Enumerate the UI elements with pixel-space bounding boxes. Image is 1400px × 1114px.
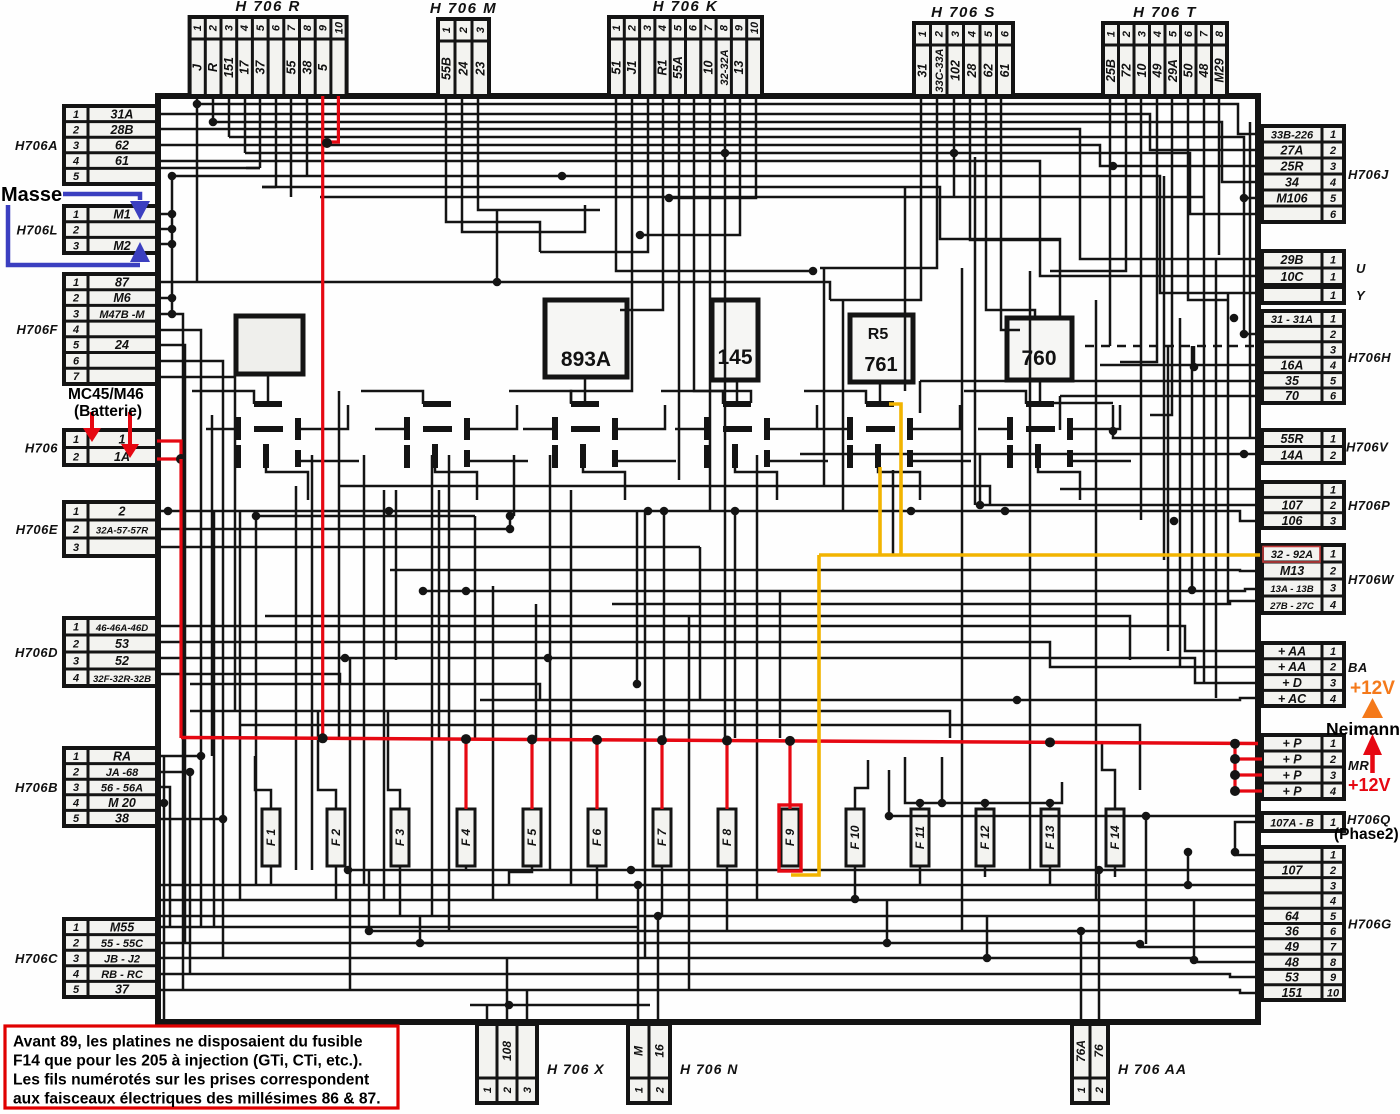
wire net A5/Y	[172, 176, 1262, 293]
svg-text:1: 1	[1330, 646, 1336, 658]
wire relay feed	[964, 391, 1026, 404]
svg-text:2: 2	[933, 31, 945, 38]
relay1 right contact	[295, 418, 301, 440]
svg-text:9: 9	[1330, 972, 1337, 984]
junction	[544, 654, 553, 663]
fuse F13	[1041, 809, 1059, 866]
wire net RB-RC/53	[157, 974, 1262, 977]
wire net R/34	[213, 122, 1262, 182]
svg-text:52: 52	[115, 654, 129, 668]
wire from H706S pin1	[830, 96, 921, 300]
svg-text:76A: 76A	[1074, 1040, 1088, 1062]
svg-text:2: 2	[1329, 500, 1336, 512]
svg-text:F14 que pour les 205 à injecti: F14 que pour les 205 à injection (GTi, C…	[13, 1053, 363, 1070]
svg-text:Y: Y	[1356, 288, 1366, 303]
wire to H706X pin3	[526, 990, 529, 1024]
svg-text:H 706 R: H 706 R	[235, 0, 301, 15]
wire stub	[419, 916, 422, 943]
wire M6 stub	[157, 297, 172, 300]
fuse F14	[1106, 809, 1124, 866]
wire vertical	[734, 511, 737, 738]
svg-text:Les fils numérotés sur les pri: Les fils numérotés sur les prises corres…	[13, 1072, 369, 1089]
wire net 53/+AA	[157, 642, 1262, 667]
svg-text:2: 2	[118, 505, 126, 519]
wire mid 486	[340, 486, 990, 505]
junction	[633, 680, 642, 689]
wire from H706S pin3	[953, 96, 956, 198]
svg-text:1: 1	[1330, 129, 1336, 141]
wire vertical	[383, 490, 386, 900]
junction	[164, 507, 173, 516]
svg-text:46-46A-46D: 46-46A-46D	[95, 623, 148, 634]
wire from H706R pin	[275, 96, 278, 187]
svg-text:5: 5	[73, 340, 80, 352]
svg-text:1: 1	[73, 922, 79, 934]
svg-text:Masse: Masse	[1, 184, 62, 206]
wire F3 top	[388, 711, 400, 809]
connector H706A	[15, 106, 157, 184]
connector H706V	[1262, 430, 1389, 463]
svg-text:1: 1	[1076, 1087, 1088, 1093]
wire net 27B-27C	[612, 601, 1262, 604]
relay5 right contact lower	[907, 450, 913, 467]
relay3 right contact lower	[612, 450, 618, 467]
svg-text:(Phase2): (Phase2)	[1334, 826, 1399, 843]
svg-text:55B: 55B	[440, 57, 454, 80]
relay6 fixed contact	[1026, 401, 1054, 407]
svg-text:+ P: + P	[1282, 785, 1302, 799]
wire net 64	[160, 915, 1262, 918]
relay3 coil pin	[580, 444, 586, 468]
fuse F7	[653, 809, 671, 866]
svg-text:9: 9	[318, 24, 330, 31]
wire relay6 to 55R	[1048, 402, 1113, 405]
wire from H706T pin7	[1203, 96, 1206, 197]
svg-text:aux faisceaux électriques des: aux faisceaux électriques des millésimes…	[13, 1091, 381, 1108]
junction	[209, 118, 218, 127]
junction	[883, 939, 892, 948]
wire vertical	[688, 616, 691, 990]
svg-text:51: 51	[610, 61, 624, 75]
connector H706E	[16, 502, 157, 556]
junction	[851, 895, 860, 904]
relay contacts relay5	[850, 404, 910, 468]
svg-text:2: 2	[72, 937, 79, 949]
relay3 left contact	[552, 417, 558, 440]
svg-text:50: 50	[1181, 64, 1195, 78]
svg-text:3: 3	[475, 27, 487, 33]
relay contacts relay3	[555, 404, 615, 468]
junction	[1109, 162, 1118, 171]
connector H706B	[15, 748, 157, 826]
svg-text:9: 9	[734, 24, 746, 31]
svg-text:37: 37	[115, 983, 130, 997]
junction	[983, 954, 992, 963]
svg-text:2: 2	[1329, 329, 1336, 341]
wire relay left	[978, 428, 1010, 431]
svg-text:M106: M106	[1276, 192, 1308, 206]
wire F2 top	[318, 711, 336, 809]
svg-text:7: 7	[286, 24, 298, 31]
junction red bus	[461, 734, 471, 744]
wire vertical	[986, 916, 989, 958]
svg-text:4: 4	[72, 673, 79, 685]
svg-text:R: R	[206, 63, 220, 72]
svg-text:M13: M13	[1280, 564, 1304, 578]
connector H706	[25, 430, 157, 465]
svg-text:32F-32R-32B: 32F-32R-32B	[93, 674, 151, 685]
junction	[976, 501, 985, 510]
svg-text:1: 1	[441, 27, 453, 33]
wire F10 top	[855, 760, 868, 809]
caption box	[5, 1026, 398, 1108]
junction	[809, 267, 818, 276]
wire P1	[1060, 488, 1262, 491]
wire vertical	[431, 455, 434, 916]
wire 55R	[1113, 405, 1262, 438]
relay 145	[712, 300, 758, 380]
svg-text:38: 38	[115, 812, 129, 826]
wire RA	[157, 755, 201, 758]
wire relay right lower	[910, 460, 971, 463]
wire relay coil tail	[266, 468, 308, 500]
svg-text:5: 5	[255, 24, 267, 31]
svg-text:1: 1	[73, 434, 79, 446]
fuse F9	[781, 809, 799, 866]
svg-text:H706W: H706W	[1348, 572, 1395, 587]
junction red	[322, 138, 332, 148]
red wire to fuse	[530, 739, 533, 809]
relay contacts relay6	[1010, 404, 1070, 468]
wire M2 stub	[157, 243, 172, 246]
relay2 left contact lower	[404, 445, 410, 468]
red wire to fuse	[725, 741, 728, 809]
wire relay right	[615, 405, 665, 429]
svg-text:62: 62	[981, 64, 995, 78]
wire relay feed	[661, 391, 723, 404]
relay contacts relay2	[407, 404, 467, 468]
svg-text:JB - J2: JB - J2	[104, 954, 140, 966]
wire vertical	[961, 268, 964, 931]
svg-text:17: 17	[238, 60, 252, 75]
wire from H706K pin7	[709, 96, 712, 511]
wire vertical	[663, 511, 666, 738]
junction	[365, 927, 374, 936]
wire relay coil tail	[435, 468, 477, 500]
relay3 moving contact	[571, 426, 600, 432]
wire vertical	[1179, 318, 1182, 667]
wire vertical	[255, 516, 258, 885]
wire stub	[919, 381, 922, 413]
svg-text:3: 3	[1330, 880, 1336, 892]
relay4 left contact	[704, 417, 710, 440]
junction	[634, 881, 643, 890]
connector H706G	[1262, 847, 1392, 1000]
svg-text:5: 5	[1330, 193, 1337, 205]
relay6 moving contact	[1026, 426, 1055, 432]
svg-text:27B - 27C: 27B - 27C	[1269, 601, 1315, 612]
red wire H706 pin2	[157, 457, 181, 460]
junction	[385, 507, 394, 516]
wire vertical	[474, 516, 477, 738]
junction	[416, 939, 425, 948]
svg-text:28: 28	[965, 64, 979, 79]
svg-text:29B: 29B	[1280, 253, 1304, 267]
wire from H706K pin9	[640, 96, 740, 235]
wire from H706R pin	[196, 96, 199, 104]
svg-text:1: 1	[1330, 255, 1336, 267]
wire net 37/151	[157, 990, 1262, 993]
svg-text:62: 62	[115, 139, 129, 153]
relay6 right contact lower	[1067, 450, 1073, 467]
yellow wire relay5 top	[889, 404, 901, 555]
wire from H706K pin10	[669, 96, 756, 198]
wire vertical	[1249, 122, 1252, 438]
wire 32A-57-57R	[157, 528, 510, 531]
junction	[168, 240, 177, 249]
svg-text:107: 107	[1282, 863, 1304, 877]
wire from H706R pin	[244, 96, 247, 153]
svg-text:4: 4	[1329, 896, 1336, 908]
wire vertical	[779, 591, 782, 738]
svg-text:151: 151	[1282, 986, 1303, 1000]
svg-text:8: 8	[1214, 30, 1226, 37]
svg-text:H706Q: H706Q	[1347, 812, 1391, 827]
relay1 left contact	[235, 417, 241, 440]
svg-text:F 9: F 9	[783, 829, 797, 847]
junction red	[1230, 770, 1240, 780]
svg-text:3: 3	[73, 542, 79, 554]
svg-text:3: 3	[950, 31, 962, 37]
junction	[1136, 940, 1145, 949]
svg-text:F 11: F 11	[913, 826, 927, 849]
svg-text:M: M	[632, 1045, 646, 1056]
relay R5 761	[850, 315, 913, 382]
svg-text:3: 3	[73, 782, 79, 794]
fuse F10	[846, 809, 864, 866]
wire vertical	[570, 490, 573, 885]
relay box (unlabelled)	[236, 316, 303, 374]
svg-text:1: 1	[1330, 738, 1336, 750]
svg-text:1: 1	[1105, 31, 1117, 37]
wire vertical	[823, 268, 826, 486]
wire M55	[157, 926, 638, 929]
junction	[1184, 881, 1193, 890]
wire vertical	[756, 455, 759, 900]
wire F4 bottom	[465, 866, 468, 870]
fuse F8	[718, 809, 736, 866]
junction	[160, 799, 169, 808]
svg-text:H 706 T: H 706 T	[1133, 4, 1197, 21]
svg-text:1: 1	[1330, 290, 1336, 302]
wire masse bus	[171, 176, 174, 317]
svg-text:+ P: + P	[1282, 737, 1302, 751]
wire mid 725	[240, 725, 1140, 790]
svg-text:48: 48	[1284, 955, 1299, 969]
svg-text:2: 2	[72, 293, 79, 305]
wire F10 bottom	[854, 866, 857, 899]
junction red bus	[722, 736, 732, 746]
wire 107	[980, 504, 1262, 507]
fuse F6	[588, 809, 606, 866]
wire from H706K pin8	[724, 96, 727, 738]
wire dashed H3	[1085, 345, 1261, 348]
wire vertical	[363, 455, 366, 885]
wire relay coil tail	[735, 468, 777, 500]
junction	[916, 799, 925, 808]
svg-text:25R: 25R	[1280, 160, 1304, 174]
wire from H706K pin3	[540, 96, 648, 252]
wire vertical	[513, 455, 516, 516]
svg-text:10: 10	[749, 21, 761, 34]
wire to H706X pin1	[486, 1005, 489, 1024]
wire F11 bottom	[919, 866, 922, 885]
svg-text:2: 2	[1329, 865, 1336, 877]
connector H706H	[1262, 311, 1391, 403]
wire JA-68	[157, 771, 190, 774]
svg-text:RB - RC: RB - RC	[101, 969, 144, 981]
svg-text:F 8: F 8	[720, 829, 734, 847]
svg-text:6: 6	[688, 24, 700, 31]
wire net 46-46A-46D/+AA	[157, 626, 1262, 651]
junction red	[176, 454, 186, 464]
svg-text:25B: 25B	[1104, 59, 1118, 83]
red wire from H706R pin9	[321, 96, 324, 738]
wire vertical	[892, 470, 895, 555]
svg-text:55A: 55A	[671, 56, 685, 79]
wire F14 top	[1102, 742, 1115, 809]
wire vertical	[239, 511, 242, 900]
wire from H706K pin5	[678, 96, 681, 480]
junction	[1095, 866, 1104, 875]
red wire from H706R pin10	[337, 96, 340, 142]
svg-text:2: 2	[208, 25, 220, 32]
wire vertical	[1227, 293, 1230, 604]
svg-text:3: 3	[642, 25, 654, 31]
svg-text:H706J: H706J	[1348, 167, 1389, 182]
wire relay left	[675, 428, 707, 431]
svg-text:H 706 N: H 706 N	[680, 1061, 738, 1077]
svg-text:10C: 10C	[1281, 270, 1305, 284]
wire relay1 box to contacts	[267, 374, 270, 403]
relay1 right contact lower	[295, 450, 301, 467]
relay5 coil pin	[875, 444, 881, 468]
wire vertical	[506, 958, 509, 997]
svg-text:8: 8	[1330, 957, 1337, 969]
wire vertical	[211, 415, 214, 756]
svg-text:2: 2	[1329, 450, 1336, 462]
connector MR	[1262, 735, 1369, 799]
wire stub	[1059, 396, 1062, 430]
junction	[1001, 507, 1010, 516]
wire 16A	[1100, 364, 1262, 367]
svg-text:6: 6	[73, 355, 80, 367]
wire elbow	[157, 167, 260, 170]
junction	[636, 231, 645, 240]
wire net G4	[160, 899, 1262, 902]
svg-text:+ P: + P	[1282, 753, 1302, 767]
red wire to fuse	[595, 740, 598, 809]
junction	[731, 507, 740, 516]
junction	[419, 587, 428, 596]
svg-text:F 2: F 2	[329, 829, 343, 847]
wire relay right	[298, 405, 348, 429]
svg-text:151: 151	[222, 57, 236, 78]
relay5 moving contact	[866, 426, 895, 432]
junction	[219, 815, 228, 824]
svg-text:H706F: H706F	[16, 322, 58, 337]
connector H 706 S	[914, 4, 1013, 96]
junction red bus	[318, 733, 328, 743]
wire 38	[157, 818, 223, 821]
svg-text:2: 2	[626, 25, 638, 32]
svg-text:2: 2	[72, 524, 79, 536]
junction	[558, 172, 567, 181]
wire from H706R pin	[290, 96, 293, 197]
arrow battery feed	[90, 412, 94, 430]
svg-text:48: 48	[1197, 64, 1211, 79]
svg-text:3: 3	[73, 140, 79, 152]
connector H706W	[1262, 545, 1395, 613]
svg-text:1: 1	[611, 25, 623, 31]
svg-text:1: 1	[73, 277, 79, 289]
svg-text:M6: M6	[113, 291, 131, 305]
red wire down	[179, 459, 182, 738]
svg-text:760: 760	[1021, 347, 1056, 370]
wire stub	[979, 454, 982, 505]
wire M47B-M	[157, 314, 183, 990]
wire right vertical	[1243, 198, 1246, 334]
wire 107A-B to G1	[1235, 822, 1262, 855]
relay2 left contact	[404, 417, 410, 440]
svg-text:5: 5	[983, 30, 995, 37]
junction	[168, 225, 177, 234]
connector H 706 N	[628, 1024, 738, 1103]
svg-text:10: 10	[1135, 64, 1149, 78]
relay4 left contact lower	[704, 445, 710, 468]
svg-text:RA: RA	[113, 749, 131, 763]
svg-text:+12V: +12V	[1350, 678, 1395, 699]
relay6 left contact lower	[1007, 445, 1013, 468]
svg-text:1: 1	[1330, 433, 1336, 445]
svg-text:107: 107	[1282, 499, 1304, 513]
wire relay left	[523, 428, 555, 431]
svg-text:H706B: H706B	[15, 780, 58, 795]
svg-text:H706V: H706V	[1346, 440, 1389, 455]
svg-text:893A: 893A	[561, 348, 611, 371]
wire 35	[920, 380, 1262, 383]
svg-text:36: 36	[1285, 925, 1300, 939]
svg-text:2: 2	[458, 27, 470, 34]
svg-text:U: U	[1356, 261, 1366, 276]
fuse F11	[911, 809, 929, 866]
wire from H706K pin2	[571, 96, 632, 403]
svg-text:F 1: F 1	[264, 829, 278, 847]
wire M1 stub	[157, 213, 172, 216]
wire F11 top	[919, 803, 922, 809]
relay2 fixed contact	[423, 401, 451, 407]
relay 760	[1007, 318, 1072, 380]
fuse F1	[262, 809, 280, 866]
svg-text:JA -68: JA -68	[106, 767, 139, 779]
svg-text:7: 7	[1330, 941, 1337, 953]
svg-text:38: 38	[300, 61, 314, 75]
svg-text:31: 31	[915, 64, 929, 78]
svg-text:1: 1	[1330, 549, 1336, 561]
svg-text:6: 6	[270, 24, 282, 31]
svg-text:24: 24	[114, 338, 129, 352]
wire net 62/25R	[157, 145, 1262, 166]
